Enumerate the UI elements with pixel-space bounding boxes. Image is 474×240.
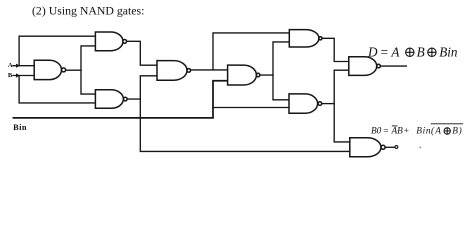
wire Bin branch to U7 bottom input — [213, 107, 289, 109]
bubble U7 — [318, 102, 322, 106]
wire A input — [13, 65, 34, 67]
nand gate U9 (borrow output B0) — [350, 138, 381, 157]
nand gate U2 (top of first XOR) — [95, 32, 123, 51]
svg-text:B: B — [417, 44, 425, 59]
stray dot artifact — [419, 147, 421, 149]
wire U7 output to node N7 — [322, 103, 335, 105]
xor symbol 1 in D equation — [406, 48, 414, 56]
bubble U9 — [381, 145, 385, 149]
nand gate U8 (sum output D) — [349, 57, 377, 76]
wire U1 output to node N1 — [66, 69, 81, 71]
equation D = A xor B xor Bin — [367, 44, 458, 59]
wire U4 output (A xor B) to U5 top input — [191, 69, 228, 71]
bubble U4 — [187, 69, 191, 73]
svg-text:A: A — [8, 62, 13, 69]
wire D output — [380, 65, 406, 67]
svg-text:(A: (A — [431, 126, 442, 137]
wire A riser to U2 top input — [19, 36, 95, 65]
nand gate U3 (bottom of first XOR) — [95, 90, 123, 109]
xor symbol in B0 equation — [444, 128, 450, 134]
svg-text:=: = — [381, 44, 388, 59]
wire node N1 riser feeding U2 and U3 — [81, 46, 95, 94]
arrowhead on input A — [16, 64, 20, 68]
terminal circle at B0 output — [395, 146, 398, 149]
wire node N5 riser feeding U6 and U7 — [273, 42, 289, 100]
wire node N3 riser to U4 bottom input and down to U9 lower input — [140, 76, 349, 152]
arrowhead on input B — [16, 73, 20, 77]
bubble U8 — [377, 64, 381, 68]
overbar on (A xor B) in B0 equation — [431, 123, 464, 125]
wire Bin line riser to U5 bottom input — [13, 81, 227, 118]
xor symbol 2 in D equation — [428, 48, 436, 56]
svg-text:AB: AB — [391, 127, 404, 137]
bubble U1 — [62, 68, 66, 72]
overbar on A in B0 equation — [392, 125, 398, 127]
wire node N7 riser to U8 bottom input and down to U9 top input — [334, 70, 350, 142]
svg-text:=: = — [383, 127, 388, 137]
svg-text:D: D — [367, 44, 378, 59]
bubble U2 — [123, 40, 127, 44]
bubble U6 — [319, 37, 322, 40]
wire B riser to U3 bottom input — [19, 76, 95, 103]
svg-text:+: + — [404, 127, 409, 137]
bubble U3 — [123, 97, 127, 101]
svg-text:B0: B0 — [371, 127, 382, 137]
wire U5 output to node N5 — [260, 74, 273, 76]
svg-text:B): B) — [452, 126, 462, 137]
wire U2 output to U4 top input — [127, 41, 157, 65]
bubble U5 — [256, 73, 260, 77]
equation B0 = (A bar)B + Bin(A xor B) bar — [371, 126, 462, 137]
nand gate U6 (top of second XOR) — [289, 30, 319, 47]
svg-text:Bin: Bin — [439, 44, 458, 59]
wire node X riser to U6 top input — [213, 33, 289, 70]
nand gate U4 (first XOR output) — [157, 61, 187, 81]
wire U6 output to U8 top input — [322, 38, 349, 61]
svg-text:B: B — [8, 72, 13, 79]
wire B0 output — [385, 146, 395, 148]
svg-text:Bin: Bin — [13, 123, 27, 132]
svg-text:A: A — [390, 44, 400, 59]
nand gate U1 (inputs A,B) — [34, 60, 61, 79]
nand gate U5 (X nand Bin) — [228, 65, 257, 85]
wire U3 output to node N3 — [127, 98, 140, 100]
svg-text:Bin: Bin — [416, 127, 431, 137]
svg-text:(2) Using NAND gates:: (2) Using NAND gates: — [32, 4, 144, 18]
wire B input — [13, 75, 34, 77]
nand gate U7 (bottom of second XOR) — [289, 94, 318, 113]
